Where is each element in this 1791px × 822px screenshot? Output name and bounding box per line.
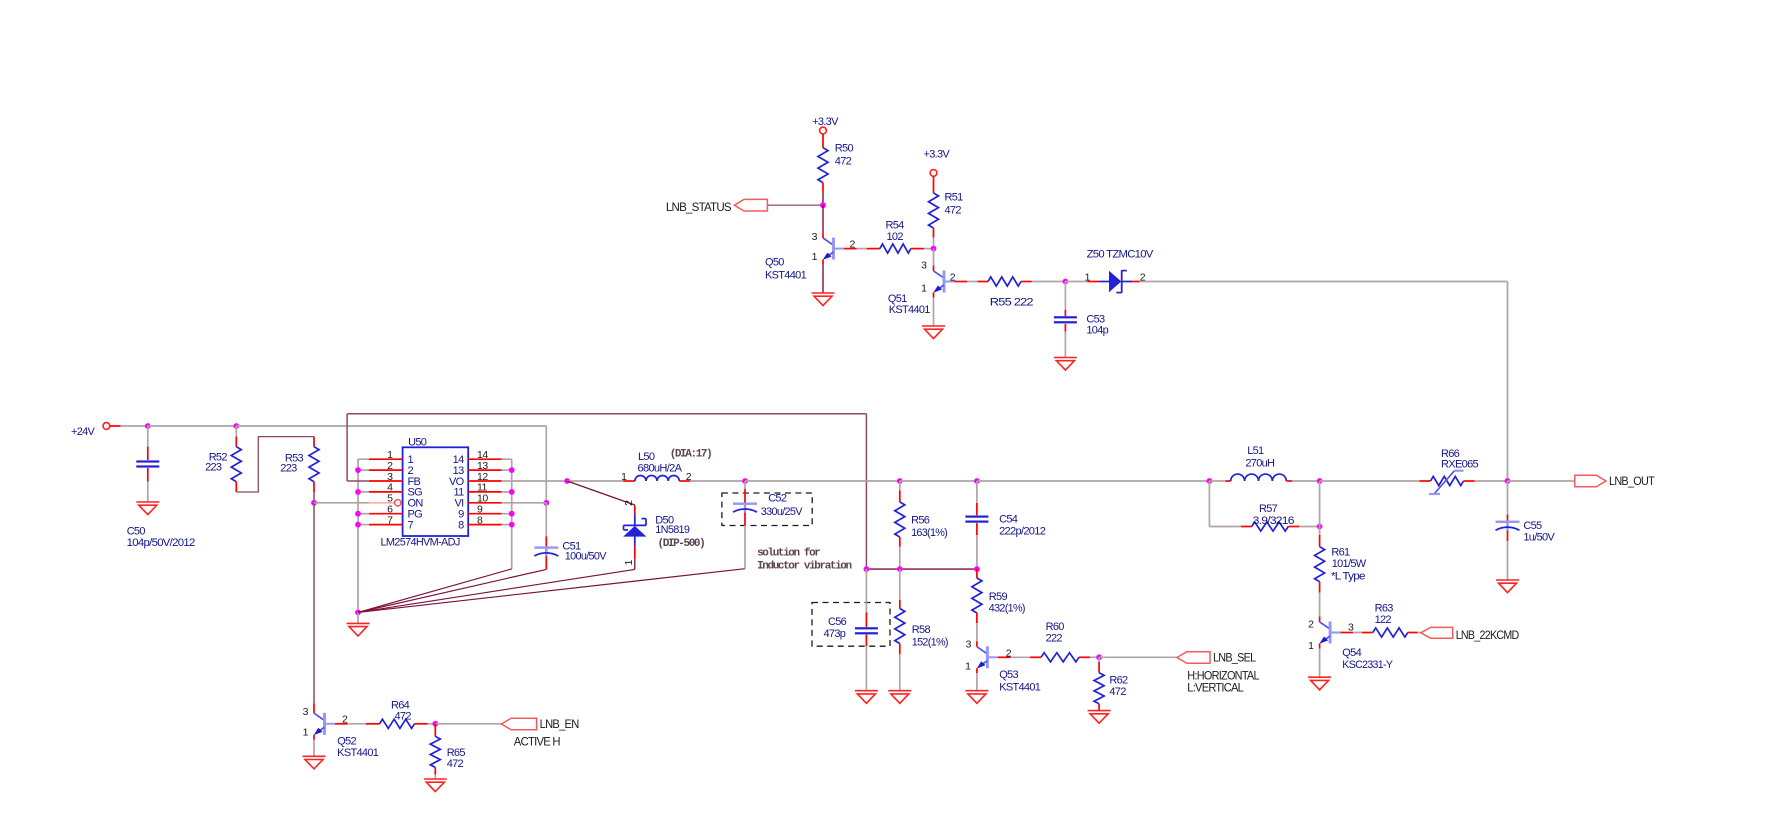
wire R50 bottom stub: [822, 183, 824, 192]
wire C50 to ground: [147, 482, 149, 503]
IC U50 LM2574HVM-ADJ: [369, 436, 502, 548]
wire R53 bottom stub: [313, 482, 315, 492]
wire rail R52 to VI riser: [236, 425, 546, 427]
svg-text:KST4401: KST4401: [337, 747, 379, 759]
wire R60 left stub: [1030, 656, 1041, 658]
resistor R63: [1373, 628, 1408, 637]
junction pin11: [509, 489, 515, 495]
svg-text:Q50: Q50: [765, 256, 784, 268]
junction FB row R59: [974, 566, 980, 572]
wire R58 bottom stub: [899, 644, 901, 655]
diode D50 1N5819: [623, 500, 704, 566]
wire D50 corner: [634, 504, 636, 507]
svg-text:L:VERTICAL: L:VERTICAL: [1187, 680, 1244, 694]
wire +24V riser down to VI: [545, 426, 547, 503]
svg-text:LNB_EN: LNB_EN: [540, 717, 579, 731]
svg-text:1u/50V: 1u/50V: [1523, 532, 1555, 544]
wire C53 bottom stub: [1064, 324, 1066, 332]
wire Q52 collector stub: [313, 703, 315, 708]
junction pin13: [509, 467, 515, 473]
svg-text:R57: R57: [1259, 503, 1278, 515]
wire C50 top stub: [147, 447, 149, 460]
resistor R62: [1094, 673, 1104, 704]
wire Z50 cathode stub: [1132, 281, 1140, 283]
wire L51 left stub: [1226, 480, 1231, 482]
wire node to Q50 collector: [822, 205, 824, 232]
junction ON node: [311, 500, 317, 506]
wire pin7 to bundle: [358, 524, 369, 526]
svg-text:1: 1: [1308, 640, 1314, 652]
power +3.3V (R50): [812, 116, 839, 134]
wire FB pin out: [347, 480, 369, 482]
wire rail to R52: [235, 426, 237, 437]
svg-text:330u/25V: 330u/25V: [761, 506, 803, 518]
wire ON net: [314, 502, 369, 504]
resistor R64: [380, 719, 415, 728]
ground (R65): [424, 779, 447, 792]
resistor R52: [231, 447, 241, 482]
ground (Q51): [922, 326, 945, 339]
wire node down: [1098, 657, 1100, 662]
wire C50 bottom stub: [147, 468, 149, 482]
wire R60 right stub: [1079, 656, 1090, 658]
wire pin4 to bundle: [358, 491, 369, 493]
ground (C56): [855, 691, 878, 704]
svg-text:R54: R54: [886, 220, 905, 232]
svg-text:C54: C54: [999, 514, 1018, 526]
svg-text:U50: U50: [408, 436, 427, 448]
svg-text:LNB_OUT: LNB_OUT: [1609, 474, 1655, 488]
ground (C50): [136, 502, 159, 515]
resistor R51: [929, 193, 939, 228]
wire C52 to fan corner: [744, 526, 746, 569]
svg-text:3.9/3216: 3.9/3216: [1253, 515, 1295, 527]
wire R56 top stub: [899, 490, 901, 502]
svg-text:+3.3V: +3.3V: [812, 116, 839, 128]
wire L50 left stub: [623, 480, 635, 482]
wire bus to L50: [567, 480, 623, 482]
wire pin11 to bundle: [502, 491, 512, 493]
wire R51 top stub: [933, 176, 935, 193]
port LNB_OUT: [1575, 474, 1656, 488]
wire R56 to FB row: [899, 547, 901, 569]
wire FB row: [866, 568, 977, 570]
capacitor C54: [965, 516, 988, 523]
wire right riser down to LNB_OUT bus: [1507, 282, 1509, 482]
port LNB_STATUS: [666, 199, 768, 214]
svg-text:472: 472: [945, 205, 962, 217]
svg-text:102: 102: [887, 231, 904, 243]
svg-text:Inductor vibration: Inductor vibration: [757, 561, 851, 573]
transistor Q50: [765, 231, 857, 282]
svg-text:100u/50V: 100u/50V: [565, 551, 607, 563]
wire R54 left stub: [867, 248, 880, 250]
wire to R57: [1209, 526, 1241, 528]
svg-text:8: 8: [477, 514, 483, 526]
wire C56 top stub: [865, 612, 867, 627]
port LNB_SEL: [1177, 651, 1256, 665]
resistor R50: [818, 148, 828, 183]
svg-text:270uH: 270uH: [1245, 458, 1275, 470]
svg-text:Q51: Q51: [888, 293, 907, 305]
wire Q54 emitter to ground: [1319, 649, 1321, 678]
wire D50 cathode stub: [634, 506, 636, 515]
ground (Q50): [812, 293, 835, 306]
wire pin8 to bundle: [502, 524, 512, 526]
wire R54 to Q51 node: [924, 248, 934, 250]
wire R61 to Q54: [1319, 593, 1321, 617]
svg-text:+3.3V: +3.3V: [924, 148, 951, 160]
svg-text:LNB_STATUS: LNB_STATUS: [666, 200, 732, 214]
wire Q50 base to R54: [857, 248, 867, 250]
wire R58 to ground: [899, 654, 901, 691]
svg-text:2: 2: [1308, 619, 1314, 631]
svg-text:223: 223: [205, 462, 222, 474]
wire Q53 base to R60: [1010, 656, 1030, 658]
svg-text:R59: R59: [989, 591, 1008, 603]
junction Z50 node: [1063, 279, 1069, 285]
svg-text:1: 1: [965, 660, 971, 672]
transistor Q54: [1308, 617, 1393, 671]
wire R64 to node: [428, 723, 436, 725]
port LNB_22KCMD: [1421, 627, 1520, 642]
wire L50 right stub: [679, 480, 690, 482]
svg-text:3: 3: [921, 259, 927, 271]
wire fan to C52: [358, 569, 745, 613]
junction switch node: [564, 478, 570, 484]
wire C56 bottom stub: [865, 635, 867, 646]
wire R58 top stub: [899, 600, 901, 609]
wire pin9 to bundle: [502, 513, 512, 515]
junction FB row C56: [864, 566, 870, 572]
svg-text:152(1%): 152(1%): [912, 637, 948, 649]
svg-text:solution for: solution for: [757, 548, 820, 560]
wire node to LNB_EN port: [435, 723, 501, 725]
wire R64 left stub: [366, 723, 380, 725]
wire D50 anode stub: [634, 547, 636, 559]
ground (R58): [888, 691, 911, 704]
wire R56 tap down: [899, 481, 901, 490]
svg-text:RXE065: RXE065: [1441, 458, 1479, 470]
svg-text:1N5819: 1N5819: [655, 524, 690, 536]
wire +24V to C50 tap: [121, 425, 148, 427]
wire Z50 to right riser: [1140, 281, 1508, 283]
wire ON node down to Q52 collector: [313, 503, 315, 704]
junction L51 tap: [1207, 478, 1213, 484]
junction VI node: [543, 500, 549, 506]
wire L51 right stub: [1287, 480, 1293, 482]
svg-text:1: 1: [621, 471, 627, 483]
wire node down to C55: [1507, 481, 1509, 515]
svg-text:432(1%): 432(1%): [989, 602, 1025, 614]
capacitor C51: [534, 546, 558, 557]
power +24V: [71, 423, 110, 438]
wire node down to C53: [1064, 282, 1066, 311]
svg-text:472: 472: [447, 758, 464, 770]
ground (star): [347, 623, 370, 636]
svg-text:R63: R63: [1375, 603, 1394, 615]
wire VO to bus: [502, 480, 568, 482]
wire fan to C51: [358, 569, 546, 612]
svg-text:2: 2: [950, 272, 956, 284]
wire FB riser: [346, 414, 348, 481]
wire C55 top stub: [1507, 515, 1509, 521]
wire pin6 to bundle: [358, 513, 369, 515]
wire rail C50-R52: [148, 425, 237, 427]
svg-text:472: 472: [835, 156, 852, 168]
svg-text:101/5W: 101/5W: [1332, 558, 1367, 570]
svg-text:KST4401: KST4401: [999, 682, 1041, 694]
svg-text:1: 1: [812, 251, 818, 263]
wire bus to L51: [1209, 480, 1225, 482]
svg-text:KSC2331-Y: KSC2331-Y: [1342, 659, 1393, 671]
wire L51 to R57 node: [1292, 480, 1320, 482]
wire C54 top stub: [976, 503, 978, 515]
wire pin14 to bundle: [502, 458, 512, 460]
wire pin1 to bundle: [358, 458, 369, 460]
resistor R54: [880, 244, 911, 253]
capacitor C56: [855, 627, 878, 634]
resistor R60: [1041, 653, 1079, 662]
wire R51 bottom stub: [933, 228, 935, 238]
svg-text:104p/50V/2012: 104p/50V/2012: [127, 537, 195, 549]
wire R55 left stub: [978, 281, 989, 283]
wire R57 right stub: [1288, 526, 1299, 528]
svg-text:1: 1: [623, 559, 635, 565]
resistor R58: [895, 609, 905, 644]
wire R65 bottom stub: [434, 767, 436, 774]
wire R50 top stub: [822, 134, 824, 148]
svg-text:222: 222: [1046, 632, 1063, 644]
wire switch node to D50 cathode: [567, 481, 635, 505]
ground (Q54): [1308, 677, 1331, 690]
wire R51 to node: [933, 238, 935, 249]
wire Q53 emitter to ground: [976, 673, 978, 690]
junction pin8: [509, 522, 515, 528]
wire FB top run: [347, 413, 866, 415]
wire node to Z50 anode: [1065, 281, 1087, 283]
junction LNB_STATUS node: [820, 202, 826, 208]
wire node riser: [1319, 481, 1321, 527]
wire FB row down to R58: [899, 569, 901, 600]
wire C56 to ground: [865, 646, 867, 691]
resistor R53: [309, 447, 319, 482]
wire R55 right stub: [1021, 281, 1032, 283]
svg-text:C50: C50: [127, 525, 146, 537]
svg-text:163(1%): 163(1%): [911, 527, 947, 539]
svg-text:3: 3: [303, 706, 309, 718]
wire bus to R66: [1320, 480, 1420, 482]
ground (Q52): [303, 756, 326, 769]
svg-text:*L Type: *L Type: [1331, 571, 1365, 583]
wire R64 right stub: [415, 723, 428, 725]
wire R65 to ground: [434, 775, 436, 779]
svg-text:2: 2: [623, 500, 635, 506]
ground (C53): [1054, 358, 1077, 371]
wire R63 left stub: [1362, 632, 1373, 634]
wire R52 bottom stub: [235, 482, 237, 492]
svg-text:LM2574HVM-ADJ: LM2574HVM-ADJ: [381, 536, 460, 548]
wire R63 right stub: [1408, 632, 1418, 634]
wire LNB_STATUS to node: [768, 204, 824, 206]
wire Q51 emitter to ground: [933, 298, 935, 326]
port LNB_EN: [501, 717, 578, 731]
wire R56 bottom stub: [899, 537, 901, 547]
junction pin4: [355, 489, 361, 495]
wire C55 to ground: [1507, 541, 1509, 580]
junction C52 tap: [742, 478, 748, 484]
wire L50 to C52 tap: [690, 480, 745, 482]
wire R62 bottom stub: [1098, 704, 1100, 711]
resistor R56: [895, 502, 905, 537]
wire R59 top stub: [976, 569, 978, 578]
wire to LNB_OUT port: [1508, 480, 1575, 482]
svg-text:Q53: Q53: [999, 669, 1018, 681]
resistor R65: [430, 736, 440, 767]
wire R62 top stub: [1098, 662, 1100, 673]
ground (Q53): [965, 691, 988, 704]
junction +24V rail C50 tap: [145, 423, 151, 429]
wire R65 top stub: [434, 724, 436, 737]
svg-text:Z50 TZMC10V: Z50 TZMC10V: [1087, 249, 1154, 261]
wire C53 top stub: [1064, 310, 1066, 316]
junction Q51 base node: [931, 246, 937, 252]
svg-text:7: 7: [387, 514, 393, 526]
wire bus C54-L51: [977, 480, 1210, 482]
wire C52 top stub: [744, 489, 746, 503]
svg-text:LNB_SEL: LNB_SEL: [1213, 651, 1256, 665]
power +3.3V (R51): [924, 148, 951, 176]
junction LNB_OUT node: [1505, 478, 1511, 484]
wire R59 bottom stub: [976, 613, 978, 623]
wire bus R56-C54: [900, 480, 977, 482]
svg-text:Q52: Q52: [337, 736, 356, 748]
svg-text:3: 3: [966, 639, 972, 651]
svg-text:C52: C52: [768, 493, 787, 505]
svg-text:KST4401: KST4401: [765, 270, 807, 282]
resistor R66 (fusible): [1429, 448, 1479, 494]
junction +24V rail R52 tap: [233, 423, 239, 429]
wire R59 to Q53: [976, 623, 978, 641]
svg-text:472: 472: [1109, 686, 1126, 698]
wire left bundle column to star: [357, 459, 359, 612]
wire R66 to C55 node: [1475, 480, 1508, 482]
wire VI node down to C51: [545, 503, 547, 537]
wire FB row down to C56: [865, 569, 867, 612]
svg-text:R50: R50: [835, 143, 854, 155]
capacitor C55: [1496, 521, 1520, 532]
wire C51 top stub: [545, 536, 547, 546]
wire FB dropper: [865, 414, 867, 569]
wire node to R61: [1319, 527, 1321, 536]
ground (R62): [1088, 711, 1111, 724]
wire Q50 emitter to ground: [822, 265, 824, 293]
junction pin2: [355, 467, 361, 473]
wire R55 to Z50 node: [1032, 281, 1066, 283]
svg-text:680uH/2A: 680uH/2A: [638, 463, 683, 475]
svg-text:LNB_22KCMD: LNB_22KCMD: [1456, 628, 1520, 642]
svg-text:8: 8: [458, 519, 464, 531]
transistor Q52: [303, 706, 379, 759]
resistor R57: [1252, 522, 1289, 531]
wire Q52 base to R64: [348, 723, 367, 725]
junction L51/R57 node: [1317, 478, 1323, 484]
wire C55 bottom stub: [1507, 531, 1509, 541]
wire C54 tap down: [976, 481, 978, 503]
junction R61 top node: [1317, 524, 1323, 530]
wire R61 bottom stub: [1319, 582, 1321, 593]
junction C54 tap: [974, 478, 980, 484]
wire Z50 anode stub: [1087, 281, 1099, 283]
dashed box C52 (solution): [722, 493, 812, 526]
svg-text:472: 472: [395, 710, 412, 722]
wire D50 to fan corner: [634, 559, 636, 570]
ground (C55): [1496, 580, 1519, 593]
svg-text:R56: R56: [911, 515, 930, 527]
wire node to Q51 collector: [933, 249, 935, 266]
svg-text:473p: 473p: [824, 628, 846, 640]
junction pin6: [355, 511, 361, 517]
wire C53 to ground: [1064, 332, 1066, 358]
resistor R59: [972, 578, 982, 613]
svg-text:1: 1: [303, 727, 309, 739]
svg-text:2: 2: [342, 714, 348, 726]
wire pin2 to bundle: [358, 469, 369, 471]
svg-text:7: 7: [408, 519, 414, 531]
wire star to ground: [357, 612, 359, 623]
wire C52 bottom stub: [744, 513, 746, 526]
wire R66 right stub: [1464, 480, 1475, 482]
transistor Q51: [888, 259, 967, 316]
wire R53 to ON node: [313, 492, 315, 503]
wire bus C52-R56: [745, 480, 900, 482]
svg-text:223: 223: [280, 463, 297, 475]
wire C50 top: [147, 426, 149, 447]
junction pin7: [355, 522, 361, 528]
svg-text:R55 222: R55 222: [990, 297, 1034, 309]
svg-text:R51: R51: [945, 192, 964, 204]
svg-text:R62: R62: [1109, 675, 1128, 687]
wire C54 bottom stub: [976, 523, 978, 535]
wire R57 left stub: [1241, 526, 1252, 528]
wire fan to D50: [358, 569, 635, 612]
svg-text:122: 122: [1375, 614, 1392, 626]
capacitor C52: [733, 503, 757, 514]
wire right bundle column: [511, 459, 513, 569]
wire R53 top stub: [313, 437, 315, 447]
resistor R55: [988, 277, 1021, 286]
wire C51 bottom stub: [545, 557, 547, 570]
svg-text:1: 1: [1085, 271, 1091, 283]
wire R54 right stub: [911, 248, 924, 250]
junction pin9: [509, 511, 515, 517]
wire +24V stub: [110, 425, 121, 427]
svg-text:3: 3: [812, 231, 818, 243]
capacitor C53: [1054, 316, 1077, 323]
junction FB row R58: [897, 566, 903, 572]
wire C52 tap down: [744, 481, 746, 489]
junction LNB_EN node: [432, 721, 438, 727]
wire R61 top stub: [1319, 535, 1321, 547]
wire VI pin to node: [502, 502, 547, 504]
svg-text:(DIP-500): (DIP-500): [658, 538, 705, 550]
svg-text:104p: 104p: [1086, 324, 1108, 336]
svg-text:Q54: Q54: [1342, 647, 1361, 659]
wire R60 to node: [1090, 656, 1099, 658]
svg-text:+24V: +24V: [71, 426, 96, 438]
svg-text:1: 1: [921, 283, 927, 295]
wire node to LNB_SEL port: [1099, 656, 1177, 658]
